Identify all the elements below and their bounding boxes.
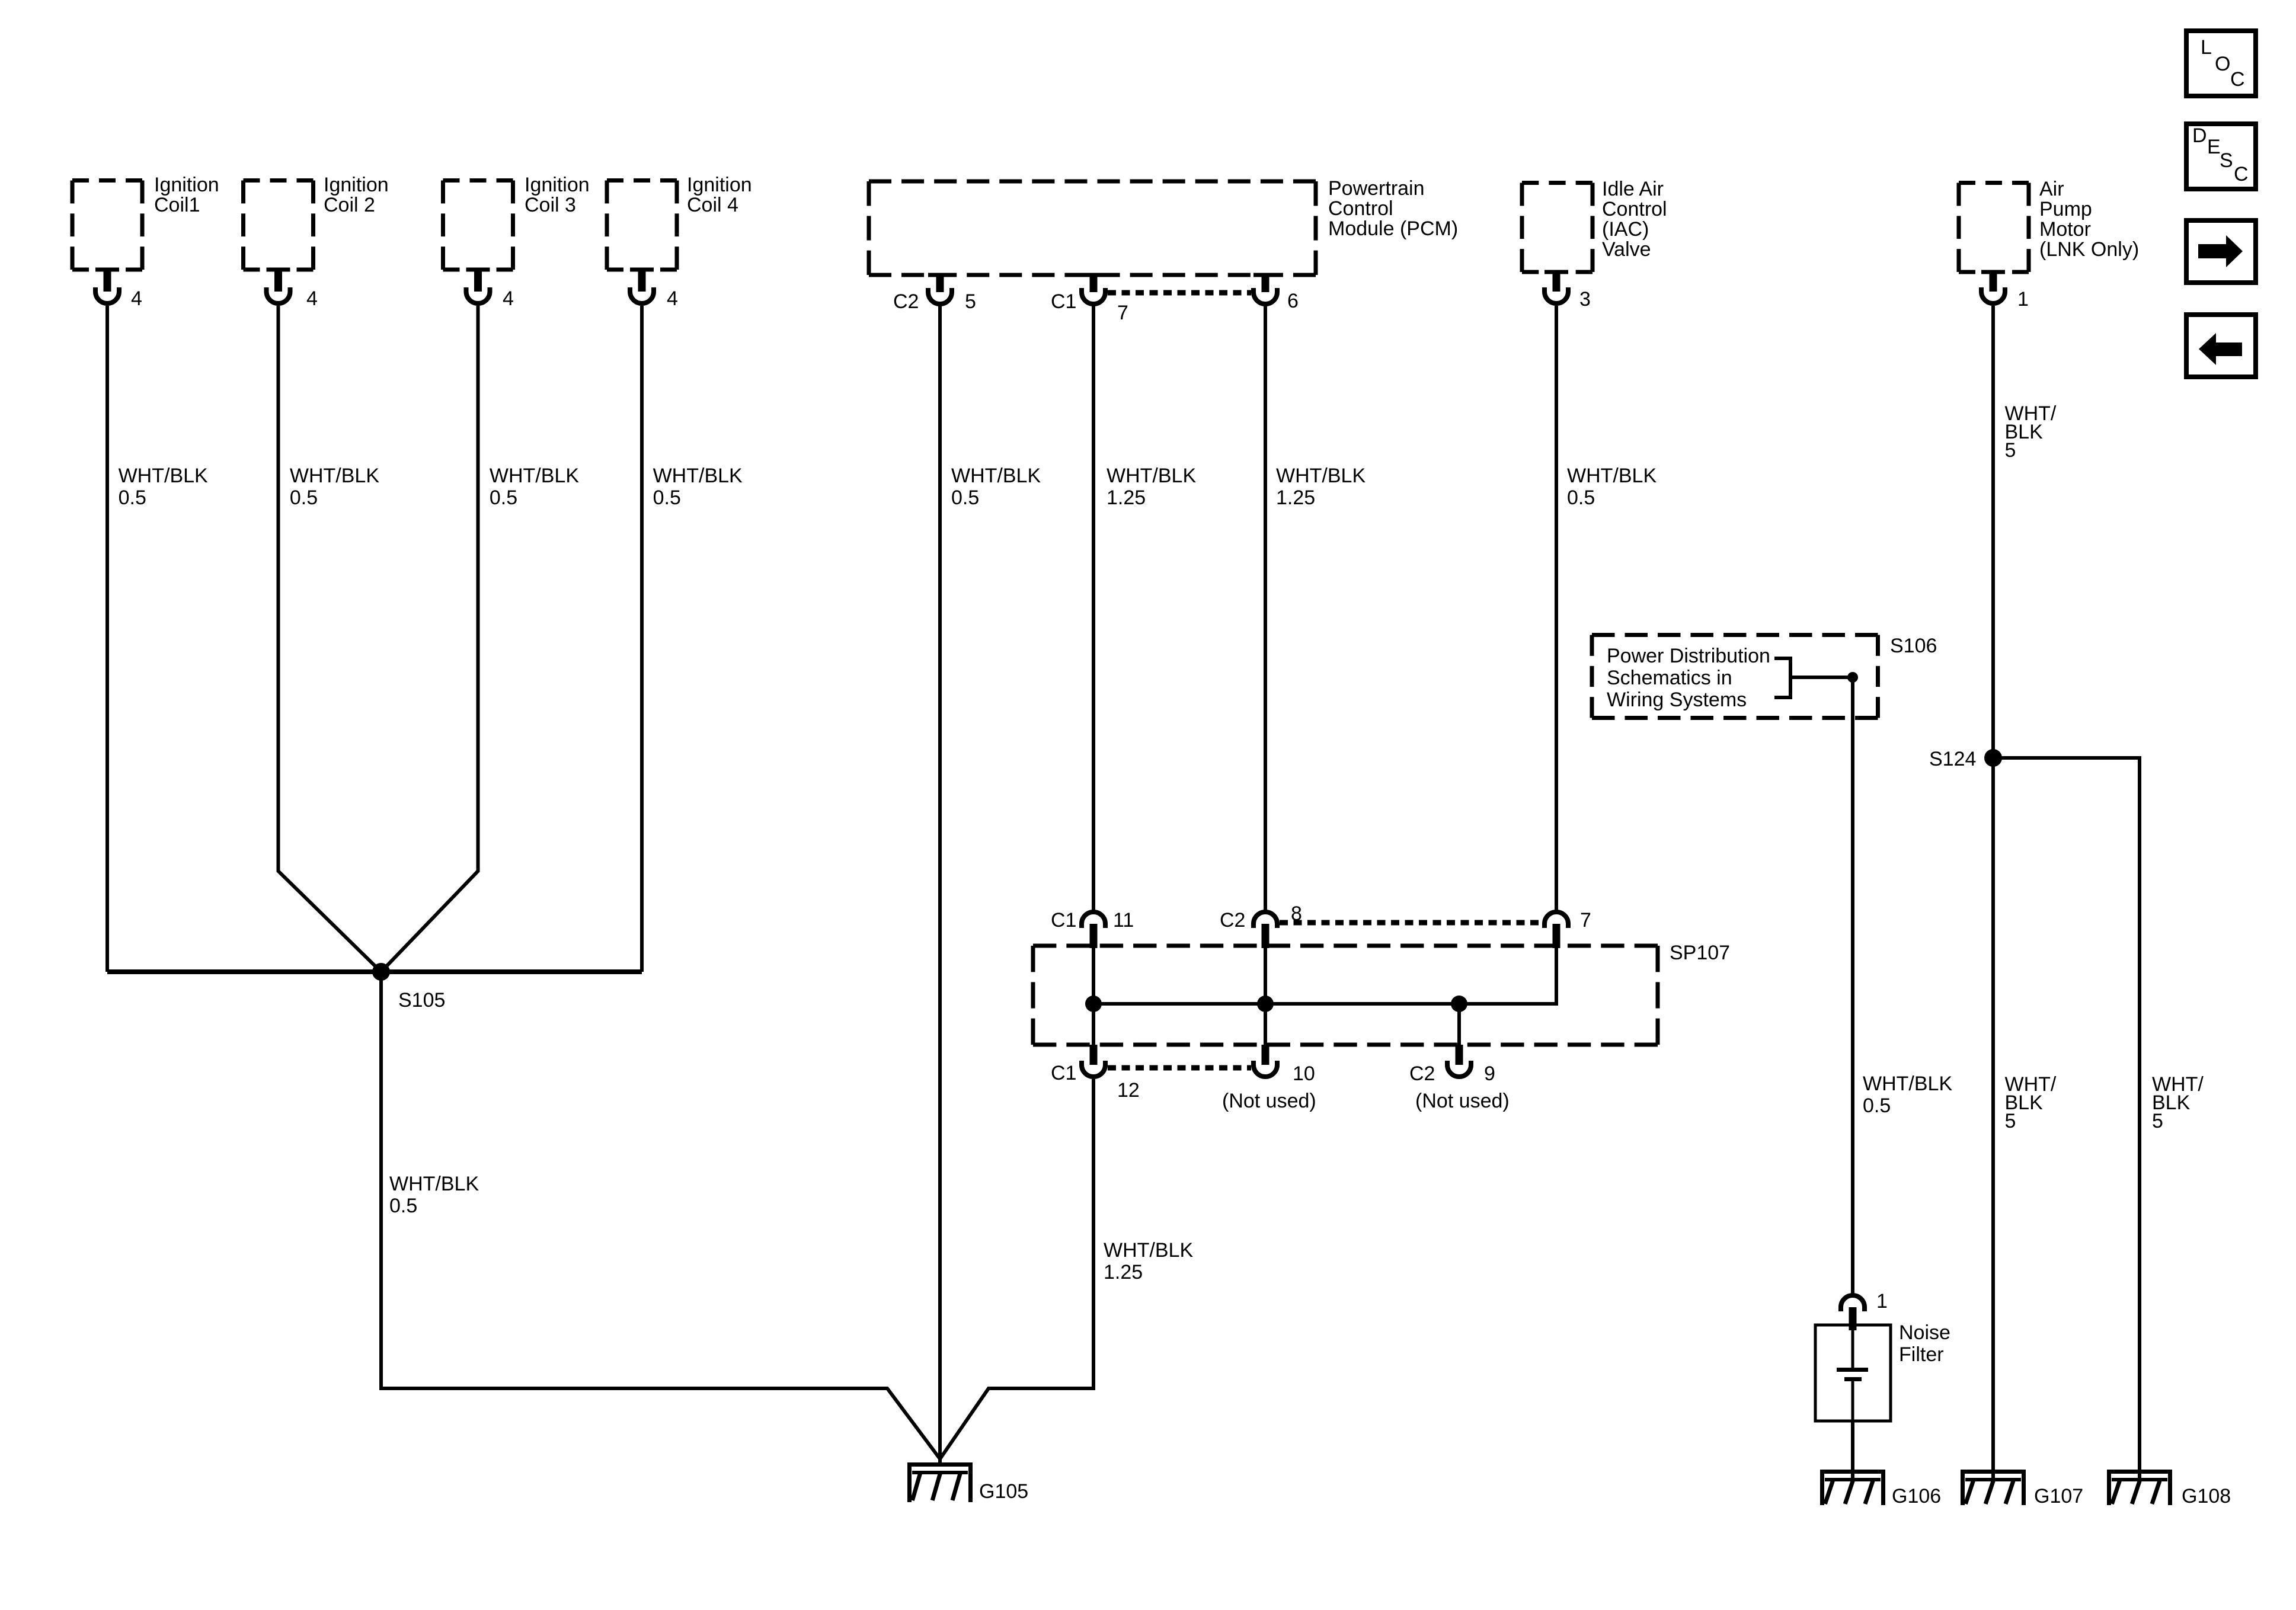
svg-text:Ignition: Ignition xyxy=(525,174,590,196)
wire S106 to noise filter xyxy=(1851,677,1854,1294)
svg-text:7: 7 xyxy=(1580,909,1591,932)
svg-text:WHT/BLK: WHT/BLK xyxy=(951,465,1041,487)
noise filter box xyxy=(1815,1325,1891,1421)
S106 power distribution dashed box xyxy=(1592,635,1878,718)
svg-text:Ignition: Ignition xyxy=(687,174,752,196)
svg-text:0.5: 0.5 xyxy=(119,486,146,509)
svg-text:WHT/BLK: WHT/BLK xyxy=(1104,1239,1193,1262)
svg-text:5: 5 xyxy=(2152,1110,2163,1132)
ignition coil 4 label xyxy=(687,174,752,216)
ignition coil 3 label xyxy=(525,174,590,216)
svg-text:WHT/BLK: WHT/BLK xyxy=(290,465,379,487)
connector pin 4 of ignition coil 1 xyxy=(95,268,119,304)
svg-text:C2: C2 xyxy=(1220,909,1245,932)
wire S106 bracket to junction xyxy=(1790,676,1853,679)
svg-text:Idle Air: Idle Air xyxy=(1602,178,1664,200)
wire label WHT/BLK 0.5 (coil 4) xyxy=(653,465,743,509)
svg-text:0.5: 0.5 xyxy=(951,486,979,509)
svg-text:Control: Control xyxy=(1602,198,1667,220)
noise filter capacitor xyxy=(1837,1326,1868,1420)
wire PCM pin 7 to SP107 C1 pin 11 xyxy=(1092,306,1095,911)
SP107 connector C2 pin 9 (cup) xyxy=(1447,1045,1471,1077)
SP107 connector C1 pin 11 (dome) xyxy=(1082,912,1105,948)
wire label WHT/BLK 0.5 (noise filter leg) xyxy=(1863,1073,1952,1117)
wire label WHT/BLK 1.25 (pin 6) xyxy=(1276,465,1366,509)
ignition coil 2 label xyxy=(324,174,389,216)
wire label WHT/BLK 1.25 (pin 7) xyxy=(1107,465,1196,509)
svg-text:WHT/BLK: WHT/BLK xyxy=(1567,465,1657,487)
splice S105 junction dot xyxy=(372,963,390,981)
ground G107 xyxy=(1961,1470,2026,1505)
arrow-left legend box xyxy=(2186,315,2256,377)
SP107 junction dot at pin 8 leg xyxy=(1257,996,1274,1012)
svg-text:0.5: 0.5 xyxy=(1567,486,1595,509)
SP107 junction dot at pin 9 leg xyxy=(1451,996,1467,1012)
svg-text:0.5: 0.5 xyxy=(290,486,318,509)
wire label WHT/BLK 5 (G107 leg) xyxy=(2005,1073,2057,1132)
connector pin 4 of ignition coil 4 xyxy=(630,268,654,304)
noise filter label xyxy=(1899,1321,1950,1366)
svg-text:1: 1 xyxy=(2017,288,2029,311)
svg-text:(LNK Only): (LNK Only) xyxy=(2039,238,2139,261)
IAC valve label xyxy=(1602,178,1667,261)
SP107 connector C1 pin 12 (cup) xyxy=(1082,1045,1105,1077)
PCM label xyxy=(1328,177,1458,240)
wire label WHT/BLK 0.5 (S105 leg) xyxy=(389,1173,479,1217)
svg-text:O: O xyxy=(2215,53,2230,75)
svg-text:11: 11 xyxy=(1113,909,1134,932)
svg-text:Filter: Filter xyxy=(1899,1343,1944,1366)
SP107 internal wire pin 11 to pin 12 xyxy=(1092,946,1095,1045)
splice S124 junction dot xyxy=(1984,749,2002,767)
svg-text:L: L xyxy=(2201,36,2212,59)
ground G106 xyxy=(1820,1470,1885,1505)
powertrain control module (PCM) box xyxy=(869,181,1316,275)
IAC connector pin 3 xyxy=(1544,270,1568,304)
svg-text:C2: C2 xyxy=(893,290,919,313)
svg-text:S: S xyxy=(2220,149,2233,172)
wire label WHT/BLK 5 (G108 leg) xyxy=(2152,1073,2204,1132)
svg-text:Coil 3: Coil 3 xyxy=(525,194,576,216)
svg-text:C: C xyxy=(2234,163,2249,185)
SP107 connector pin 7 (dome) xyxy=(1544,912,1568,948)
LOC legend box xyxy=(2186,31,2256,96)
S106 junction dot xyxy=(1847,672,1858,683)
svg-text:7: 7 xyxy=(1117,302,1128,324)
svg-text:Air: Air xyxy=(2039,178,2064,200)
wire label WHT/BLK 0.5 (coil 3) xyxy=(490,465,579,509)
S106 box text xyxy=(1607,645,1770,711)
DESC legend letters xyxy=(2192,124,2249,185)
air pump motor label xyxy=(2039,178,2139,261)
SP107 connector C2 pin 8 (dome) xyxy=(1253,912,1277,948)
dotted tie line between PCM pins 7 and 6 xyxy=(1108,290,1251,296)
idle air control (IAC) valve box xyxy=(1522,183,1593,273)
wire label WHT/BLK 1.25 (pin 12 leg) xyxy=(1104,1239,1193,1283)
svg-text:(Not used): (Not used) xyxy=(1415,1090,1510,1112)
wire SP107 pin 12 to ground G105 xyxy=(940,1079,1093,1459)
svg-text:E: E xyxy=(2207,136,2221,158)
wire air pump pin 1 to ground G107 xyxy=(1991,306,1995,1480)
svg-text:C1: C1 xyxy=(1051,290,1076,313)
dotted tie line between SP107 pins 12 and 10 xyxy=(1108,1065,1251,1071)
wire IAC pin 3 to SP107 pin 7 xyxy=(1555,306,1558,911)
ignition coil 1 label xyxy=(154,174,219,216)
svg-text:12: 12 xyxy=(1117,1079,1140,1102)
LOC legend letters xyxy=(2201,36,2245,91)
svg-text:1: 1 xyxy=(1876,1290,1888,1313)
wire label WHT/BLK 5 (air pump) xyxy=(2005,402,2057,462)
svg-text:SP107: SP107 xyxy=(1670,942,1730,964)
svg-text:1.25: 1.25 xyxy=(1276,486,1315,509)
svg-text:1.25: 1.25 xyxy=(1104,1261,1143,1283)
svg-text:C1: C1 xyxy=(1051,909,1076,932)
arrow-right legend box xyxy=(2186,220,2256,283)
wire label WHT/BLK 0.5 (IAC) xyxy=(1567,465,1657,509)
SP107 junction dot at pin 11 leg xyxy=(1085,996,1102,1012)
svg-text:4: 4 xyxy=(306,287,318,310)
dotted tie line between SP107 pins 8 and 7 xyxy=(1280,920,1542,926)
SP107 internal wire pin 7 drop xyxy=(1555,946,1558,1006)
svg-text:D: D xyxy=(2192,124,2207,147)
svg-text:Ignition: Ignition xyxy=(154,174,219,196)
svg-text:WHT/BLK: WHT/BLK xyxy=(1276,465,1366,487)
wire label WHT/BLK 0.5 (coil 1) xyxy=(119,465,208,509)
svg-text:C2: C2 xyxy=(1409,1062,1435,1085)
svg-text:G105: G105 xyxy=(979,1480,1028,1503)
svg-text:Coil 2: Coil 2 xyxy=(324,194,375,216)
svg-text:Motor: Motor xyxy=(2039,218,2091,241)
svg-text:0.5: 0.5 xyxy=(1863,1094,1891,1117)
wire ignition coil 2 pin 4 down xyxy=(279,306,382,972)
svg-text:Control: Control xyxy=(1328,197,1393,220)
ignition coil 3 box xyxy=(443,181,513,270)
svg-text:0.5: 0.5 xyxy=(653,486,681,509)
svg-text:WHT/BLK: WHT/BLK xyxy=(389,1173,479,1195)
svg-text:(Not used): (Not used) xyxy=(1222,1090,1316,1112)
PCM connector pin 5 (C2) xyxy=(928,273,952,305)
S106 bracket xyxy=(1774,657,1790,699)
svg-text:Wiring Systems: Wiring Systems xyxy=(1607,689,1747,711)
svg-text:WHT/BLK: WHT/BLK xyxy=(1863,1073,1952,1095)
ground G105 xyxy=(907,1462,973,1502)
SP107 connector pin 10 (cup) xyxy=(1253,1045,1277,1077)
svg-text:5: 5 xyxy=(2005,1110,2016,1132)
DESC legend box xyxy=(2186,124,2256,189)
wire S105 to ground G105 xyxy=(381,972,940,1459)
air pump motor box xyxy=(1959,183,2029,273)
svg-text:S124: S124 xyxy=(1929,748,1976,770)
ignition coil 4 box xyxy=(607,181,677,270)
svg-text:5: 5 xyxy=(965,290,976,313)
svg-text:Power Distribution: Power Distribution xyxy=(1607,645,1770,667)
svg-text:Schematics in: Schematics in xyxy=(1607,667,1732,689)
svg-text:C: C xyxy=(2230,68,2245,91)
svg-text:9: 9 xyxy=(1484,1062,1495,1085)
svg-text:G108: G108 xyxy=(2182,1485,2231,1507)
SP107 dashed box xyxy=(1033,946,1658,1045)
SP107 internal wire pin 8 to pin 10 xyxy=(1264,946,1267,1045)
PCM connector pin 6 xyxy=(1253,273,1277,305)
svg-text:Valve: Valve xyxy=(1602,238,1651,261)
wire ignition coil 3 pin 4 down xyxy=(381,306,478,972)
svg-text:4: 4 xyxy=(131,287,142,310)
svg-text:WHT/BLK: WHT/BLK xyxy=(1107,465,1196,487)
wire label WHT/BLK 0.5 (coil 2) xyxy=(290,465,379,509)
svg-text:Coil1: Coil1 xyxy=(154,194,200,216)
wire noise filter to ground G106 xyxy=(1851,1421,1854,1480)
connector pin 4 of ignition coil 3 xyxy=(466,268,490,304)
wire label WHT/BLK 0.5 (pin 5) xyxy=(951,465,1041,509)
ground G108 xyxy=(2107,1470,2172,1505)
svg-text:Module (PCM): Module (PCM) xyxy=(1328,217,1458,240)
svg-text:(IAC): (IAC) xyxy=(1602,218,1649,241)
svg-text:6: 6 xyxy=(1287,290,1299,312)
ignition coil 1 box xyxy=(72,181,142,270)
wire PCM pin 6 to SP107 C2 pin 8 xyxy=(1264,306,1267,911)
wire ignition coil 4 pin 4 down xyxy=(640,306,644,972)
PCM connector pin 7 (C1) xyxy=(1082,273,1105,305)
svg-text:1.25: 1.25 xyxy=(1107,486,1146,509)
svg-text:Pump: Pump xyxy=(2039,198,2092,220)
connector pin 4 of ignition coil 2 xyxy=(267,268,290,304)
svg-text:Ignition: Ignition xyxy=(324,174,389,196)
arrow-right icon xyxy=(2198,235,2243,267)
svg-text:WHT/BLK: WHT/BLK xyxy=(490,465,579,487)
svg-text:0.5: 0.5 xyxy=(490,486,517,509)
S105 bus wire (horizontal) xyxy=(107,969,642,974)
wire PCM pin 5 to ground G105 xyxy=(938,306,942,1462)
svg-text:5: 5 xyxy=(2005,439,2016,462)
svg-text:WHT/BLK: WHT/BLK xyxy=(119,465,208,487)
svg-text:Coil 4: Coil 4 xyxy=(687,194,738,216)
wire ignition coil 1 pin 4 down xyxy=(105,306,109,972)
svg-text:4: 4 xyxy=(667,287,678,310)
svg-text:S105: S105 xyxy=(398,989,445,1012)
svg-text:0.5: 0.5 xyxy=(389,1195,417,1217)
svg-text:Powertrain: Powertrain xyxy=(1328,177,1425,200)
svg-text:G106: G106 xyxy=(1892,1485,1941,1507)
svg-text:10: 10 xyxy=(1293,1062,1315,1085)
SP107 internal stub to pin 9 xyxy=(1457,1004,1461,1045)
svg-text:4: 4 xyxy=(503,287,514,310)
svg-text:Noise: Noise xyxy=(1899,1321,1950,1344)
svg-text:G107: G107 xyxy=(2034,1485,2083,1507)
svg-text:3: 3 xyxy=(1579,288,1591,311)
SP107 internal splice bus xyxy=(1093,1002,1556,1006)
air pump connector pin 1 xyxy=(1981,270,2005,304)
ignition coil 2 box xyxy=(244,181,314,270)
wire S124 branch to G108 xyxy=(1993,758,2140,1480)
svg-text:C1: C1 xyxy=(1051,1062,1076,1084)
noise filter connector pin 1 (dome) xyxy=(1841,1295,1865,1330)
svg-text:S106: S106 xyxy=(1890,635,1937,657)
arrow-left icon xyxy=(2199,333,2242,365)
svg-text:WHT/BLK: WHT/BLK xyxy=(653,465,743,487)
